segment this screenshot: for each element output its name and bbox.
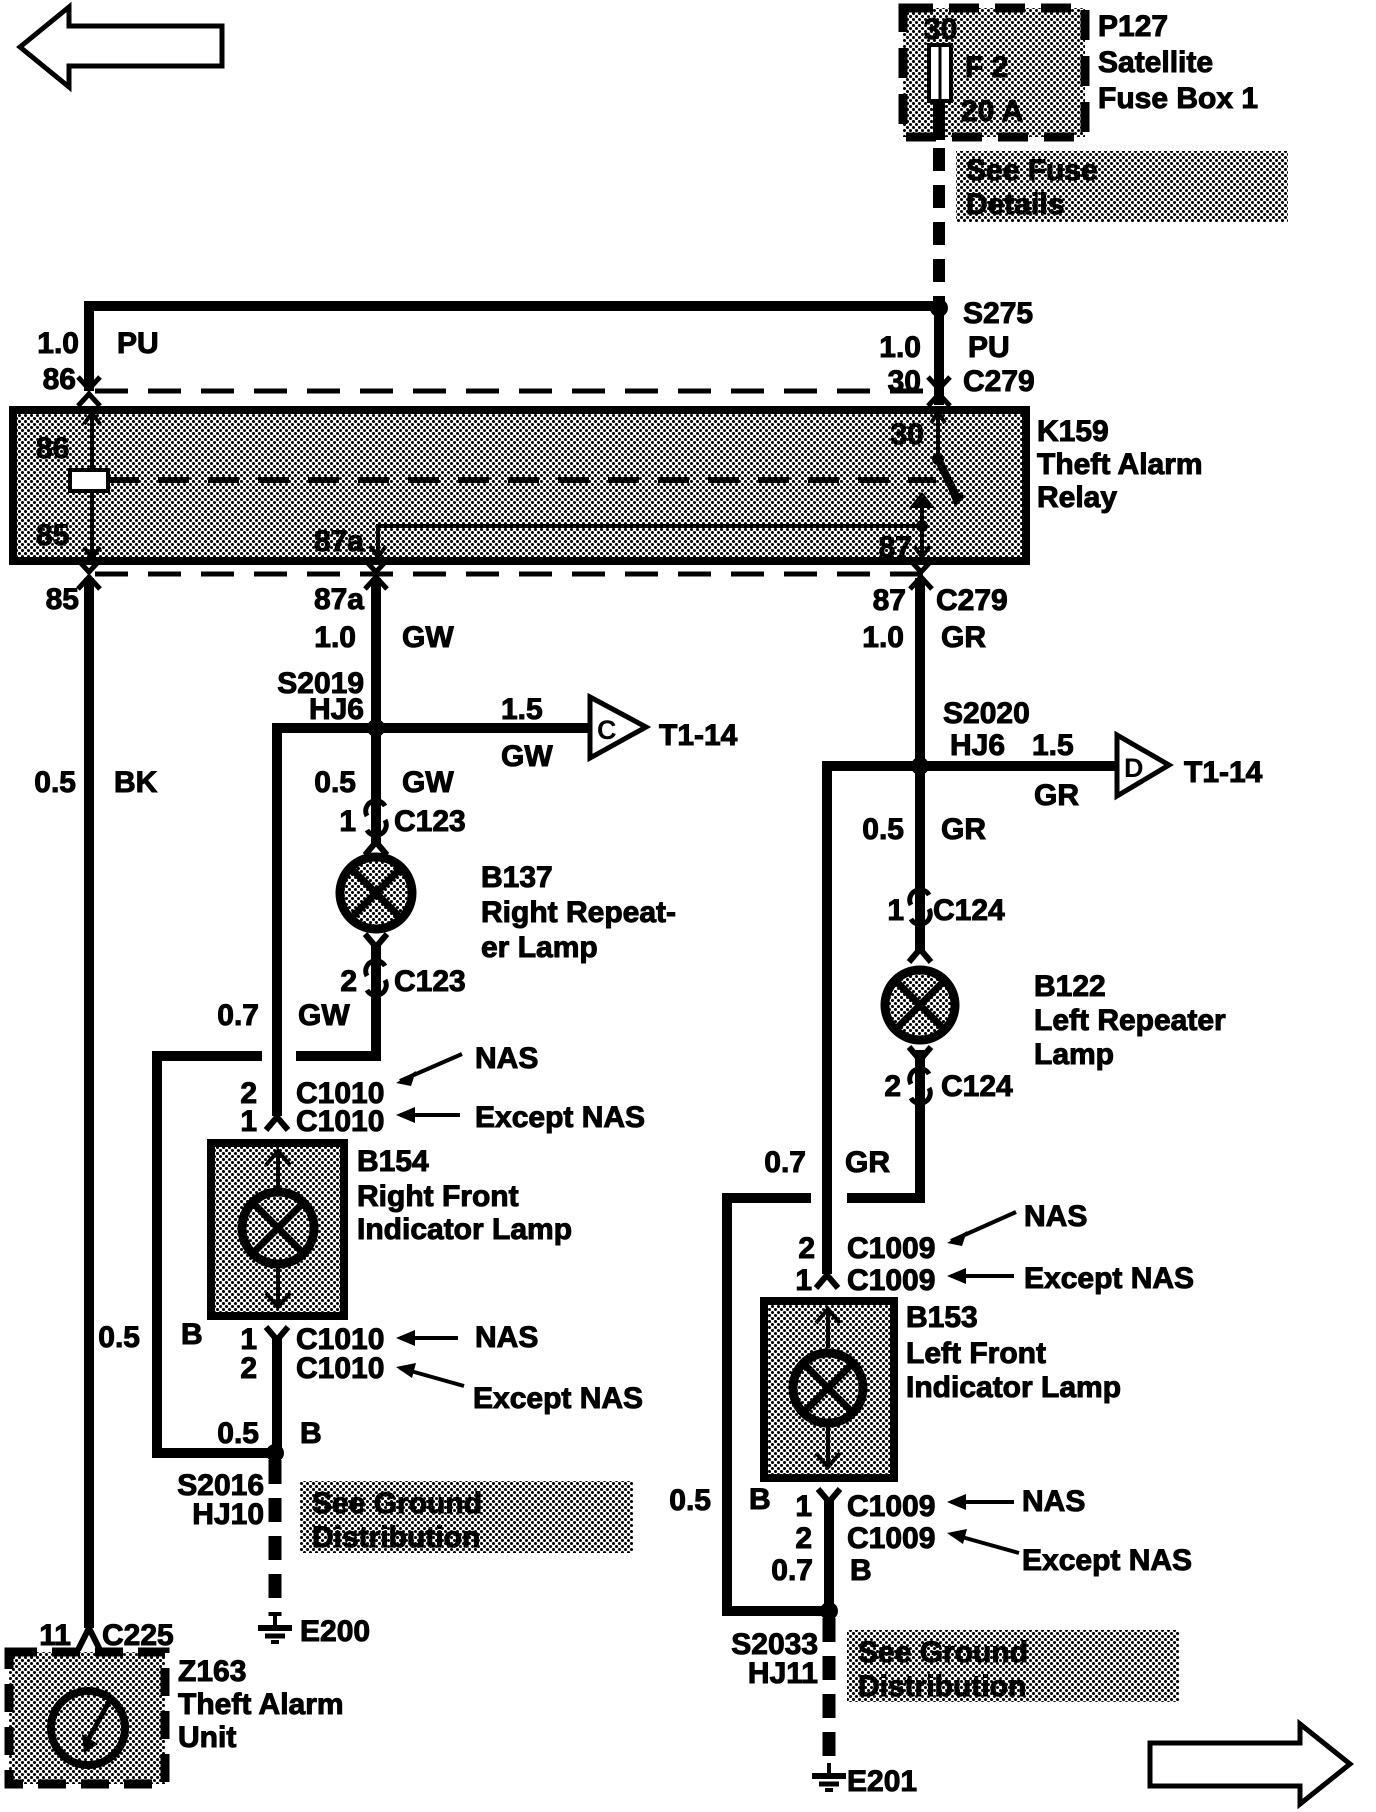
svg-text:2: 2 (340, 965, 357, 998)
svg-text:Fuse Box 1: Fuse Box 1 (1098, 82, 1258, 115)
svg-text:C1009: C1009 (847, 1264, 935, 1297)
connector 1 C1010 fork (266, 1117, 288, 1130)
page flow arrow (top left) (20, 7, 222, 87)
svg-text:Z163: Z163 (178, 1655, 246, 1688)
svg-text:Satellite: Satellite (1098, 46, 1213, 79)
svg-text:85: 85 (46, 583, 79, 616)
lamp B122 left repeater (909, 949, 931, 962)
svg-text:HJ10: HJ10 (192, 1498, 264, 1531)
connector 2 C123 (366, 961, 387, 996)
relay coil (70, 470, 108, 491)
wire 1.0 GR (pin 87) (915, 578, 925, 766)
ground E200 (273, 1616, 277, 1627)
svg-text:20 A: 20 A (961, 95, 1023, 128)
connector 1 C124 (910, 890, 931, 925)
svg-text:B: B (850, 1554, 872, 1587)
NAS pointer (right bottom) (951, 1500, 1014, 1504)
svg-text:GR: GR (845, 1146, 890, 1179)
svg-text:1: 1 (795, 1264, 812, 1297)
svg-text:NAS: NAS (1022, 1485, 1085, 1518)
svg-text:S2020: S2020 (943, 697, 1030, 730)
svg-text:C279: C279 (936, 584, 1008, 617)
svg-text:PU: PU (968, 331, 1010, 364)
svg-text:1: 1 (795, 1490, 812, 1523)
svg-text:Except NAS: Except NAS (1024, 1262, 1194, 1295)
svg-text:B122: B122 (1034, 970, 1106, 1003)
relay pin 87a link (378, 526, 922, 558)
tick 87/C279 (910, 560, 932, 589)
svg-text:D: D (1124, 753, 1144, 783)
svg-text:Unit: Unit (178, 1721, 236, 1754)
connector 1 C1010 fork (below) (266, 1327, 288, 1340)
svg-text:GW: GW (402, 766, 454, 799)
svg-text:E200: E200 (300, 1615, 370, 1648)
see ground distribution note (left) (300, 1481, 633, 1553)
node S275 (930, 299, 948, 317)
svg-text:Lamp: Lamp (1034, 1038, 1114, 1071)
lamp B137 right repeater (365, 842, 387, 855)
svg-text:C1010: C1010 (296, 1352, 384, 1385)
wire S2033 to E201 (dashed) (823, 1618, 836, 1763)
svg-text:GR: GR (941, 621, 986, 654)
svg-text:HJ6: HJ6 (309, 693, 364, 726)
off-page connector C (590, 697, 646, 758)
svg-text:Distribution: Distribution (312, 1521, 480, 1554)
svg-text:30: 30 (891, 418, 924, 451)
svg-text:Relay: Relay (1037, 481, 1117, 514)
svg-text:E201: E201 (847, 1765, 917, 1798)
connector 2 C124 (910, 1069, 931, 1104)
svg-text:Right Front: Right Front (357, 1180, 519, 1213)
wire 1.0 GW (87a) (371, 578, 381, 728)
relay switch blade (938, 459, 955, 494)
Except NAS pointer (right bottom) (951, 1534, 1019, 1553)
svg-text:PU: PU (117, 327, 159, 360)
B153 lamp (793, 1353, 863, 1423)
B154 bottom terminal arrow (276, 1266, 280, 1306)
connector line C279 (bottom, dashed) (95, 572, 930, 577)
svg-text:30: 30 (924, 13, 957, 46)
wire 0.5 BK (pin 85 to Z163) (84, 578, 94, 1628)
wire 0.5 B down-leg (157, 1056, 275, 1453)
svg-text:B154: B154 (357, 1145, 429, 1178)
theft alarm unit Z163 box (9, 1652, 165, 1784)
svg-text:C123: C123 (394, 965, 466, 998)
svg-text:0.5: 0.5 (217, 1417, 259, 1450)
svg-text:C225: C225 (102, 1619, 174, 1652)
svg-text:1.0: 1.0 (879, 331, 921, 364)
svg-text:Except NAS: Except NAS (473, 1382, 643, 1415)
svg-text:HJ6: HJ6 (950, 729, 1005, 762)
wire B122 return to ground branch (847, 1050, 920, 1198)
connector line C279 (top, dashed) (95, 389, 930, 394)
page flow arrow (bottom right) (1150, 1724, 1350, 1804)
svg-text:C1009: C1009 (847, 1490, 935, 1523)
svg-text:2: 2 (795, 1522, 812, 1555)
svg-text:1.0: 1.0 (37, 327, 79, 360)
svg-text:0.5: 0.5 (314, 766, 356, 799)
svg-text:87: 87 (879, 531, 912, 564)
svg-text:BK: BK (114, 766, 158, 799)
svg-text:Except NAS: Except NAS (1022, 1544, 1192, 1577)
svg-text:86: 86 (36, 432, 69, 465)
wire 0.7 GW branch (S2019 to B154) (277, 728, 376, 1116)
wire 30 to relay (934, 306, 944, 405)
svg-text:Left Repeater: Left Repeater (1034, 1004, 1226, 1037)
svg-text:B137: B137 (481, 861, 553, 894)
svg-text:NAS: NAS (475, 1042, 538, 1075)
svg-text:1: 1 (887, 894, 904, 927)
svg-text:NAS: NAS (475, 1321, 538, 1354)
svg-text:C1009: C1009 (847, 1522, 935, 1555)
off-page connector D (1117, 735, 1169, 796)
svg-text:Theft Alarm: Theft Alarm (1037, 448, 1203, 481)
svg-text:1: 1 (240, 1105, 257, 1138)
svg-text:11: 11 (39, 1619, 71, 1652)
NAS pointer (right top) (951, 1212, 1016, 1241)
svg-text:Indicator Lamp: Indicator Lamp (357, 1213, 572, 1246)
svg-text:87: 87 (873, 584, 906, 617)
svg-text:2: 2 (884, 1070, 901, 1103)
wire 0.5 B down-leg (right) (727, 1198, 829, 1611)
B154 top terminal arrow (276, 1150, 280, 1190)
wire fuse to S275 (dashed) (933, 101, 945, 140)
svg-text:C1010: C1010 (296, 1105, 384, 1138)
tick 86/C279 (78, 377, 100, 406)
svg-text:GW: GW (298, 999, 350, 1032)
wire 1.5 GR to connector D (920, 761, 1117, 771)
svg-text:0.5: 0.5 (98, 1321, 140, 1354)
connector 11 C225 fork (78, 1628, 100, 1650)
relay coil actuation line (dashed) (108, 477, 936, 483)
see ground distribution note (right) (847, 1630, 1179, 1702)
fuse box P127 (903, 8, 1085, 137)
svg-text:Left Front: Left Front (906, 1337, 1046, 1370)
wire B137 return to ground branch (296, 966, 376, 1056)
wire S2016 to E200 (dashed) (269, 1460, 282, 1616)
connector 1 C1009 fork (below) (818, 1489, 840, 1502)
svg-text:2: 2 (240, 1352, 257, 1385)
relay contact 87 (909, 492, 935, 508)
svg-text:C: C (597, 715, 617, 745)
node S2016 (266, 1444, 284, 1462)
svg-text:1.5: 1.5 (1032, 729, 1074, 762)
Except NAS pointer (right top) (951, 1274, 1014, 1278)
svg-text:85: 85 (36, 519, 69, 552)
connector 1 C123 (366, 801, 387, 836)
indicator lamp B154 box (211, 1143, 344, 1316)
svg-text:F 2: F 2 (965, 51, 1008, 84)
svg-text:B: B (181, 1318, 203, 1351)
B154 lamp (242, 1192, 314, 1264)
wire PU horizontal (89, 306, 939, 391)
svg-text:86: 86 (43, 363, 76, 396)
tick 85/C279 (78, 560, 100, 589)
svg-text:1: 1 (339, 805, 356, 838)
svg-text:0.7: 0.7 (217, 999, 259, 1032)
svg-text:0.5: 0.5 (862, 813, 904, 846)
svg-text:0.7: 0.7 (771, 1554, 813, 1587)
svg-text:HJ11: HJ11 (748, 1657, 818, 1690)
see fuse details note (956, 151, 1288, 222)
svg-text:Indicator Lamp: Indicator Lamp (906, 1371, 1121, 1404)
svg-text:P127: P127 (1098, 10, 1168, 43)
Except NAS pointer (top) (400, 1113, 460, 1117)
relay pin 86 line (90, 412, 94, 559)
svg-text:GW: GW (402, 621, 454, 654)
node S2020 (911, 757, 929, 775)
svg-text:See Ground: See Ground (858, 1636, 1028, 1669)
fuse F2 (929, 45, 951, 101)
svg-text:1.5: 1.5 (501, 693, 543, 726)
svg-text:1.0: 1.0 (314, 621, 356, 654)
wire 0.7 GR branch (S2020 to B153) (827, 766, 920, 1274)
svg-text:Theft Alarm: Theft Alarm (178, 1688, 344, 1721)
svg-text:Except NAS: Except NAS (475, 1101, 645, 1134)
ground E201 (827, 1763, 831, 1774)
svg-text:87a: 87a (314, 525, 364, 558)
svg-text:B: B (749, 1483, 771, 1516)
svg-text:Details: Details (966, 188, 1064, 221)
tick 30/C279 (928, 377, 950, 406)
svg-text:C124: C124 (933, 894, 1005, 927)
B153 bottom terminal arrow (826, 1426, 830, 1466)
relay K159 box (13, 410, 1026, 561)
svg-text:NAS: NAS (1024, 1200, 1087, 1233)
svg-text:C124: C124 (941, 1070, 1013, 1103)
node S2019 (367, 719, 385, 737)
svg-text:87a: 87a (314, 583, 364, 616)
wire 1.5 GW to connector C (376, 723, 590, 733)
svg-text:0.5: 0.5 (669, 1484, 711, 1517)
svg-text:C1009: C1009 (847, 1232, 935, 1265)
svg-text:B153: B153 (906, 1301, 978, 1334)
svg-text:2: 2 (798, 1232, 815, 1265)
svg-text:T1-14: T1-14 (1184, 756, 1263, 789)
svg-text:0.5: 0.5 (34, 766, 76, 799)
NAS pointer (top) (400, 1054, 462, 1081)
svg-text:See Ground: See Ground (312, 1487, 482, 1520)
wire 0.5 GR (S2020 to B122) (915, 766, 925, 896)
svg-text:See Fuse: See Fuse (966, 154, 1098, 187)
svg-text:C123: C123 (394, 805, 466, 838)
svg-text:S275: S275 (963, 297, 1033, 330)
connector 1 C1009 fork (816, 1275, 838, 1288)
svg-text:T1-14: T1-14 (659, 719, 738, 752)
svg-text:GR: GR (1034, 779, 1079, 812)
NAS pointer (bottom) (400, 1336, 458, 1340)
svg-text:GW: GW (501, 740, 553, 773)
svg-text:Right Repeat-: Right Repeat- (481, 896, 676, 929)
svg-text:B: B (300, 1417, 322, 1450)
Except NAS pointer (bottom) (400, 1368, 464, 1386)
svg-text:GR: GR (941, 813, 986, 846)
tick 87a/C279 (365, 560, 387, 589)
svg-text:0.7: 0.7 (764, 1146, 806, 1179)
B153 top terminal arrow (826, 1308, 830, 1348)
svg-text:K159: K159 (1037, 415, 1109, 448)
wire 0.5 GW (S2019 to B137) (371, 728, 381, 807)
node S2033 (820, 1602, 838, 1620)
svg-text:1.0: 1.0 (862, 621, 904, 654)
svg-text:Distribution: Distribution (858, 1670, 1026, 1703)
indicator lamp B153 box (764, 1301, 894, 1478)
svg-text:C279: C279 (963, 365, 1035, 398)
svg-text:er Lamp: er Lamp (481, 931, 598, 964)
